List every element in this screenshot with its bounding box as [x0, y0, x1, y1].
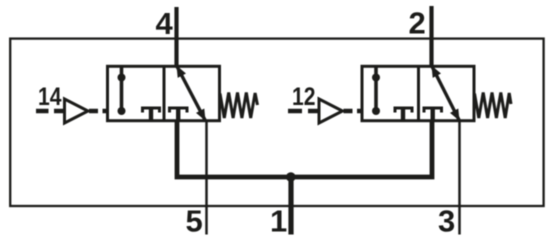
valve V1 left box: plugged flow line [120, 67, 124, 113]
svg-text:12: 12 [292, 83, 316, 111]
valve V2 left box: plugged flow line [374, 67, 378, 113]
valve V2 pilot triangle 12 [319, 99, 343, 123]
valve V2 flow path arrow 2-3 (diagonal) [432, 66, 460, 121]
valve V1 left box: plug dot bottom [118, 107, 126, 115]
valve V1 return spring [220, 93, 258, 119]
valve V1 flow path arrow 4-5 (diagonal) [177, 66, 206, 121]
wire: thick supply run 1 (left valve port 1 down, across, up to right valve port 1) [177, 120, 432, 177]
valve V2 left box: plug dot top [372, 74, 380, 82]
svg-text:4: 4 [156, 6, 174, 41]
svg-text:2: 2 [409, 6, 426, 41]
valve V1 pilot triangle 14 [65, 99, 89, 123]
valve V1 blocked port T (left box) [143, 108, 160, 113]
svg-text:3: 3 [438, 204, 455, 239]
svg-text:14: 14 [38, 83, 62, 111]
wire: port 2 line (top, right valve) [429, 6, 433, 66]
wire: port 4 line (top, left valve) [174, 7, 178, 66]
valve V1 position divider [163, 66, 166, 120]
svg-text:1: 1 [270, 204, 287, 239]
valve V1 left box: plug dot top [118, 74, 126, 82]
wire: port 5 line (left valve exhaust, down) [205, 120, 208, 235]
wire: port 3 line (right valve exhaust, down) [458, 120, 461, 235]
valve V2 return spring [475, 93, 512, 119]
valve V2 blocked port T (left box) [395, 108, 412, 113]
valve V1 pilot line 14 (dashed) [36, 109, 107, 114]
valve V2 (right 3/2 valve) body [362, 66, 474, 120]
valve V2 pilot line 12 (dashed) [288, 109, 362, 114]
svg-text:5: 5 [186, 204, 203, 239]
valve V2 position divider [417, 66, 420, 120]
wire: port 1 line (down to bottom) [288, 177, 293, 235]
valve V2 blocked port T (right box) [424, 108, 442, 113]
node: junction on supply line 1 [286, 172, 296, 182]
enclosure box (valve assembly frame) [10, 39, 543, 206]
valve V1 blocked port T (right box) [170, 108, 188, 113]
valve V2 left box: plug dot bottom [372, 107, 380, 115]
valve V1 (left 3/2 valve) body [108, 66, 220, 120]
